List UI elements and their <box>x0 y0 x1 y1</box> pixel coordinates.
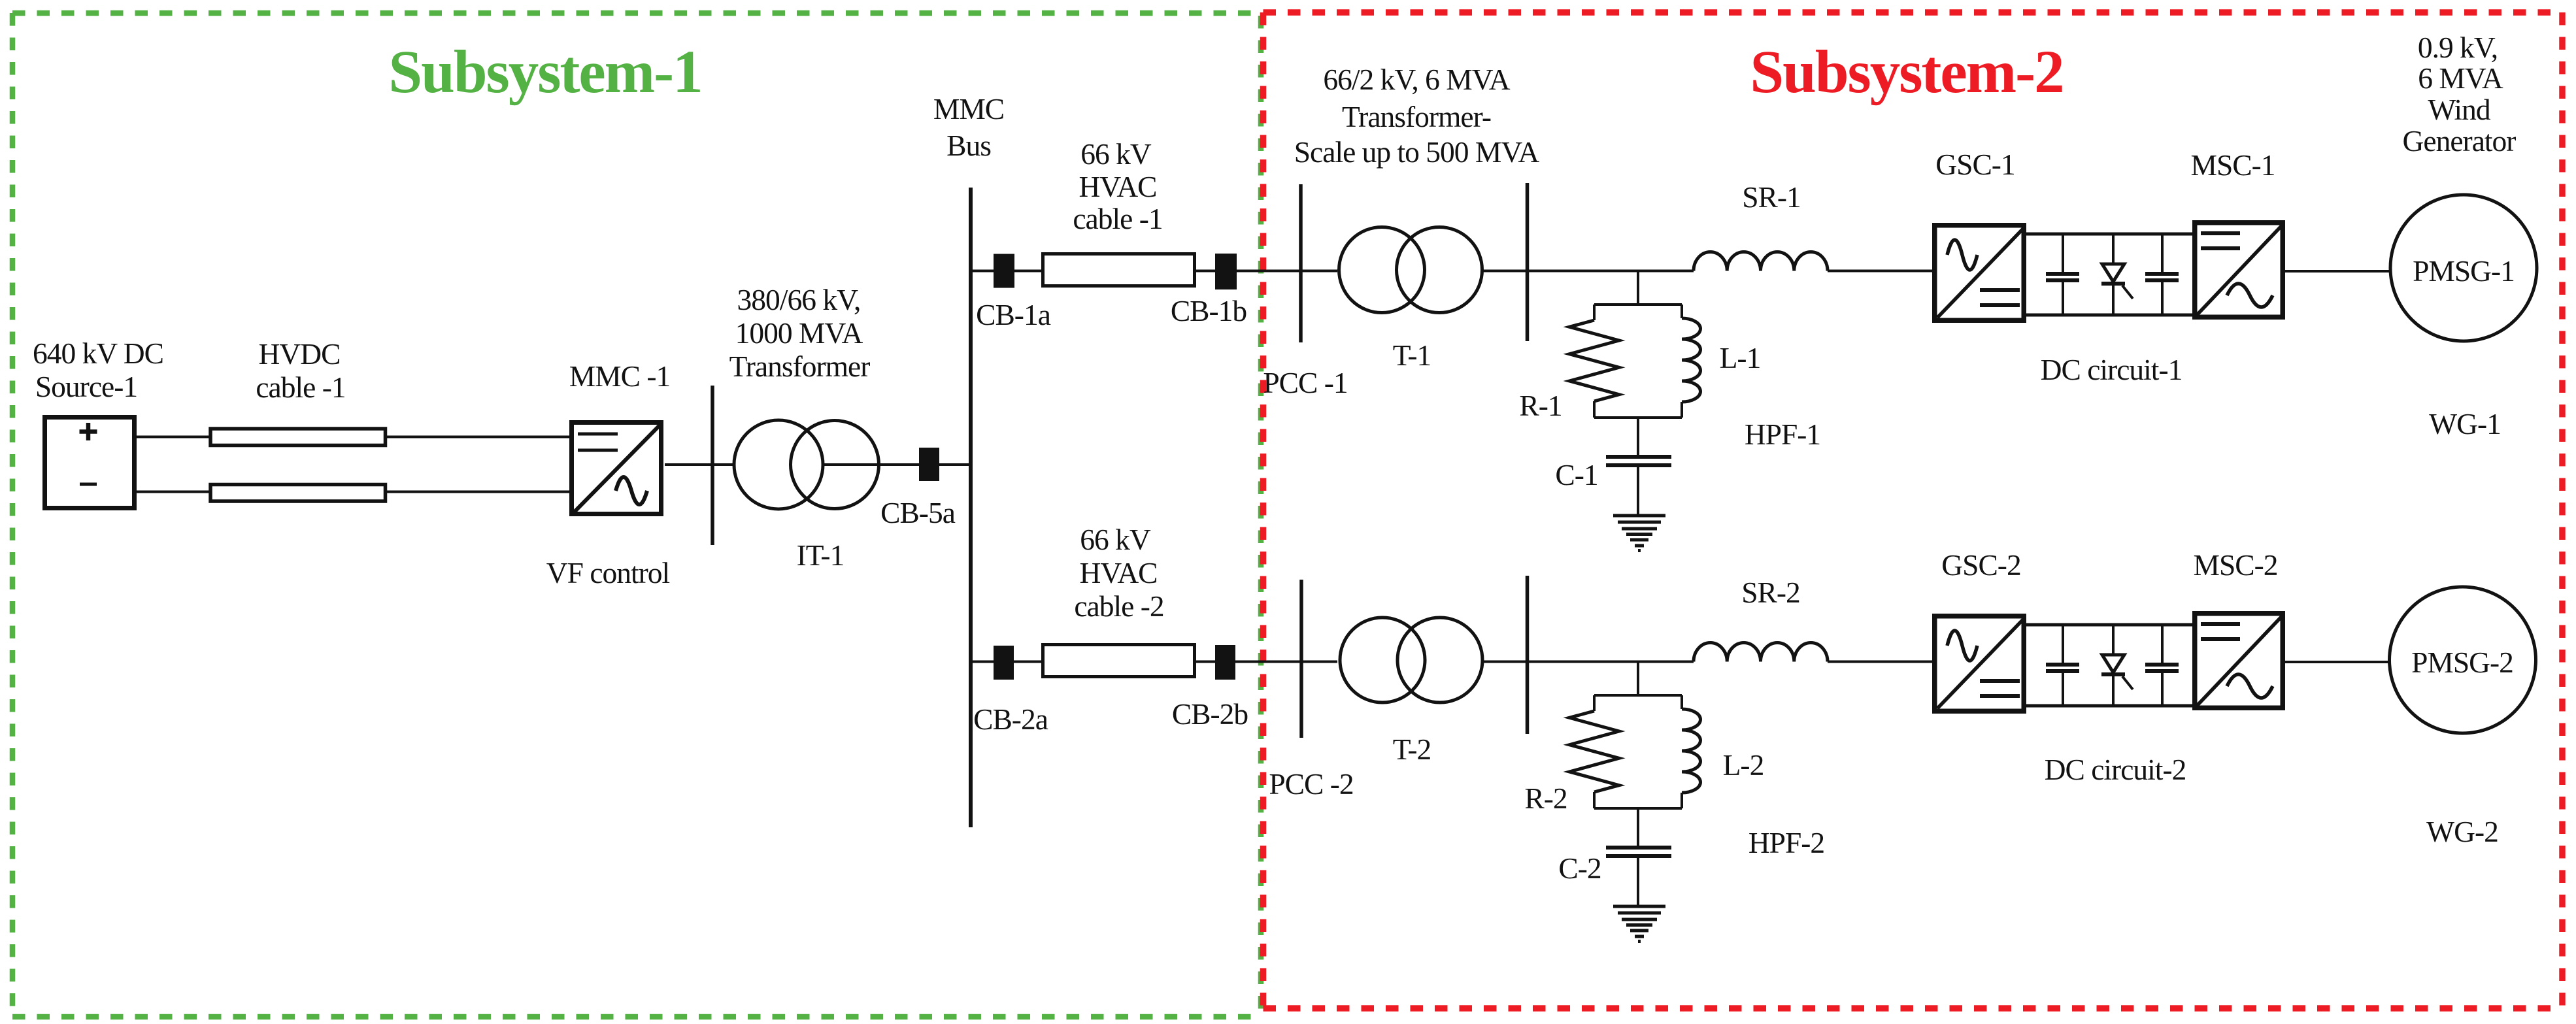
node PCC-1 bar <box>1299 184 1303 342</box>
capacitor DC link A row2 <box>2046 625 2079 706</box>
T-2 secondary bar <box>1526 576 1530 734</box>
IT-1 terminal bar <box>711 386 714 545</box>
svg-text:Bus: Bus <box>946 129 991 162</box>
wire T-1 to SR-1 <box>1480 270 1694 273</box>
svg-text:C-1: C-1 <box>1555 458 1597 491</box>
svg-text:L-2: L-2 <box>1723 748 1764 782</box>
svg-text:DC circuit-1: DC circuit-1 <box>2041 353 2183 386</box>
label 66 kV HVAC cable -1 <box>1073 137 1162 235</box>
series reactor SR-1 <box>1694 252 1828 271</box>
breaker CB-2a <box>994 646 1014 680</box>
label MMC Bus <box>933 92 1004 162</box>
breaker CB-1a <box>994 254 1014 288</box>
subsystem-2 dashed boundary box <box>1263 12 2563 1008</box>
inductor L-1 <box>1682 318 1701 402</box>
svg-text:PMSG-2: PMSG-2 <box>2411 646 2513 679</box>
DC source V1 box <box>45 418 135 508</box>
label 640 kV DC Source-1 <box>33 337 163 403</box>
diode DC link row2 <box>2101 625 2133 706</box>
svg-text:GSC-2: GSC-2 <box>1941 548 2020 582</box>
svg-text:MMC -1: MMC -1 <box>569 359 671 393</box>
DC link rails row1 <box>2026 234 2192 315</box>
svg-text:HVAC: HVAC <box>1079 556 1157 589</box>
svg-text:Subsystem-1: Subsystem-1 <box>388 39 701 106</box>
wire HPF-2 branch <box>1637 662 1639 696</box>
svg-text:380/66 kV,: 380/66 kV, <box>737 283 861 316</box>
wire negative pole <box>137 491 570 493</box>
svg-text:MSC-1: MSC-1 <box>2190 148 2275 182</box>
svg-text:T-1: T-1 <box>1393 339 1431 372</box>
wire CB-5a to bus <box>939 463 971 466</box>
wire SR-1 to GSC-1 <box>1828 270 1932 273</box>
svg-text:cable -2: cable -2 <box>1074 589 1163 623</box>
subsystem-1 dashed boundary box <box>12 13 1261 1017</box>
ground symbol row1 <box>1613 516 1665 551</box>
capacitor DC link B row2 <box>2145 625 2179 706</box>
svg-text:MMC: MMC <box>933 92 1004 125</box>
svg-text:HVDC: HVDC <box>259 337 341 371</box>
resistor R-2 <box>1569 711 1619 792</box>
converter MSC-2 <box>2195 614 2283 708</box>
svg-text:CB-1a: CB-1a <box>976 298 1051 331</box>
generator PMSG-1 <box>2390 195 2537 341</box>
inductor L-2 <box>1682 709 1701 793</box>
svg-text:Wind: Wind <box>2428 93 2491 126</box>
svg-text:HPF-2: HPF-2 <box>1748 826 1824 859</box>
wire positive pole <box>137 436 570 438</box>
svg-text:cable -1: cable -1 <box>1073 202 1162 235</box>
svg-text:SR-2: SR-2 <box>1741 576 1800 609</box>
minus terminal mark <box>80 483 97 486</box>
label HVDC cable -1 <box>256 337 345 404</box>
svg-text:MSC-2: MSC-2 <box>2193 548 2277 582</box>
breaker CB-2b <box>1215 645 1235 680</box>
svg-text:L-1: L-1 <box>1720 341 1761 374</box>
wire MMC-1 to IT-1 to CB-5a <box>665 463 919 466</box>
svg-text:Generator: Generator <box>2403 124 2517 157</box>
svg-text:VF control: VF control <box>546 556 670 589</box>
svg-text:66 kV: 66 kV <box>1080 523 1151 556</box>
svg-text:IT-1: IT-1 <box>797 538 845 572</box>
svg-text:66/2 kV, 6 MVA: 66/2 kV, 6 MVA <box>1323 63 1510 96</box>
converter GSC-2 <box>1935 616 2024 712</box>
resistor R-1 <box>1569 320 1619 401</box>
svg-text:CB-2b: CB-2b <box>1172 697 1248 731</box>
label wind generator rating <box>2403 31 2517 157</box>
svg-text:T-2: T-2 <box>1393 733 1431 766</box>
capacitor DC link B row1 <box>2145 234 2179 315</box>
MMC bus bar <box>969 188 973 827</box>
66 kV HVAC cable-1 symbol <box>1043 254 1195 286</box>
wire MSC-1 to PMSG-1 <box>2285 270 2418 273</box>
converter MSC-1 <box>2195 223 2283 318</box>
wire C-2 to ground <box>1637 857 1639 906</box>
converter MMC-1 <box>572 423 661 514</box>
svg-text:cable -1: cable -1 <box>256 371 345 404</box>
breaker CB-5a <box>919 448 939 481</box>
HPF-2 frame top/bottom <box>1594 695 1682 808</box>
transformer T-2 <box>1340 618 1482 702</box>
svg-text:640 kV DC: 640 kV DC <box>33 337 163 370</box>
svg-text:CB-2a: CB-2a <box>973 702 1048 736</box>
svg-text:HVAC: HVAC <box>1079 170 1156 203</box>
wire T-2 to SR-2 <box>1482 661 1694 663</box>
label 380/66 kV 1000 MVA Transformer <box>729 283 871 383</box>
svg-text:Transformer: Transformer <box>729 350 871 383</box>
svg-text:CB-5a: CB-5a <box>880 496 956 529</box>
node PCC-2 bar <box>1299 580 1303 738</box>
HVDC cable pole-2 symbol <box>210 485 386 502</box>
wire HPF-1 branch <box>1637 271 1639 305</box>
svg-text:PCC -2: PCC -2 <box>1269 767 1353 801</box>
svg-text:CB-1b: CB-1b <box>1171 294 1247 327</box>
svg-text:R-1: R-1 <box>1519 389 1562 422</box>
svg-text:SR-1: SR-1 <box>1742 180 1801 214</box>
breaker CB-1b <box>1215 254 1237 289</box>
capacitor DC link A row1 <box>2046 234 2079 315</box>
svg-text:1000 MVA: 1000 MVA <box>735 316 863 350</box>
DC link rails row2 <box>2026 625 2192 706</box>
svg-text:R-2: R-2 <box>1524 782 1567 815</box>
svg-text:Scale up to 500 MVA: Scale up to 500 MVA <box>1294 135 1540 169</box>
svg-text:WG-1: WG-1 <box>2429 407 2501 440</box>
capacitor C-2 <box>1606 848 1671 856</box>
diode DC link row1 <box>2101 234 2133 315</box>
wire HPF-1 to C-1 <box>1637 418 1639 455</box>
HPF-1 frame top/bottom <box>1594 305 1682 418</box>
label 66 kV HVAC cable -2 <box>1074 523 1163 623</box>
wire HPF-2 to C-2 <box>1637 808 1639 846</box>
transformer T-1 <box>1339 227 1482 313</box>
generator PMSG-2 <box>2390 587 2536 733</box>
wire bus to PCC-1/T-1 <box>971 270 1337 273</box>
66 kV HVAC cable-2 symbol <box>1043 645 1195 677</box>
svg-text:HPF-1: HPF-1 <box>1745 418 1820 451</box>
transformer IT-1 <box>734 420 879 509</box>
plus terminal mark <box>80 423 97 440</box>
svg-text:0.9 kV,: 0.9 kV, <box>2418 31 2498 64</box>
svg-text:6 MVA: 6 MVA <box>2418 61 2503 95</box>
capacitor C-1 <box>1606 457 1671 465</box>
svg-text:DC circuit-2: DC circuit-2 <box>2045 753 2186 786</box>
svg-text:WG-2: WG-2 <box>2426 815 2498 848</box>
label 66/2 kV transformer note <box>1294 63 1540 169</box>
svg-text:PMSG-1: PMSG-1 <box>2413 254 2515 288</box>
wire bus to PCC-2/T-2 <box>971 661 1337 663</box>
svg-text:66 kV: 66 kV <box>1080 137 1152 171</box>
svg-text:Transformer-: Transformer- <box>1342 100 1491 133</box>
svg-text:PCC -1: PCC -1 <box>1263 366 1347 399</box>
svg-text:C-2: C-2 <box>1558 851 1601 885</box>
converter GSC-1 <box>1935 225 2024 321</box>
svg-text:GSC-1: GSC-1 <box>1935 148 2015 181</box>
wire C-1 to ground <box>1637 467 1639 516</box>
T-1 secondary bar <box>1526 183 1530 341</box>
wire SR-2 to GSC-2 <box>1828 661 1932 663</box>
series reactor SR-2 <box>1694 642 1828 661</box>
ground symbol row2 <box>1613 906 1665 942</box>
wire MSC-2 to PMSG-2 <box>2285 661 2418 663</box>
svg-text:Source-1: Source-1 <box>35 370 137 403</box>
svg-text:Subsystem-2: Subsystem-2 <box>1750 39 2063 106</box>
HVDC cable pole-1 symbol <box>210 429 386 446</box>
